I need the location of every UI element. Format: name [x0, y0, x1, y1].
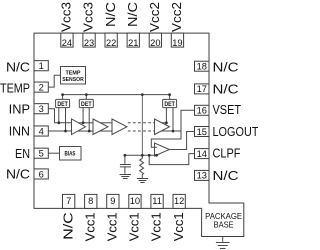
- node bus-DET1: [61, 93, 64, 96]
- detector DET4 box: [163, 99, 177, 107]
- detector summing bus: [62, 94, 170, 96]
- svg-text:PACKAGE: PACKAGE: [205, 212, 243, 221]
- DET4 tap left: [165, 108, 167, 123]
- svg-text:14: 14: [197, 149, 207, 159]
- INP wire from pin 3: [48, 109, 71, 123]
- svg-text:BIAS: BIAS: [65, 151, 76, 158]
- svg-text:DET: DET: [164, 101, 175, 108]
- node summing-clpf: [148, 154, 151, 157]
- interstage wire upper 2-3: [100, 122, 112, 124]
- svg-text:4: 4: [39, 126, 44, 136]
- ground under package base: [216, 243, 230, 249]
- amplifier A3: [112, 119, 127, 135]
- DET1 tap right: [65, 108, 67, 131]
- DET4 tap right: [172, 108, 174, 131]
- pin 12 box: [173, 194, 185, 208]
- bus stub DET1: [62, 95, 64, 100]
- svg-text:BASE: BASE: [214, 221, 234, 230]
- node bus-DET4: [168, 93, 171, 96]
- svg-text:21: 21: [128, 38, 138, 48]
- pin 16 box: [195, 105, 210, 115]
- CLPF wire: [149, 154, 194, 165]
- svg-text:18: 18: [197, 62, 207, 72]
- svg-text:LOGOUT: LOGOUT: [213, 125, 259, 139]
- svg-text:N/C: N/C: [61, 212, 75, 240]
- node summing-opamp: [155, 154, 158, 157]
- pin 13 box: [195, 170, 210, 180]
- dashed wire upper 3-4: [128, 122, 155, 124]
- svg-text:10: 10: [130, 196, 140, 206]
- interstage wire lower 1-2: [78, 130, 93, 132]
- node summing-drop: [141, 154, 144, 157]
- pin 19 box: [171, 33, 183, 47]
- pin 24 box: [34, 33, 209, 208]
- left pin labels: [0, 60, 30, 181]
- amplifier A4: [155, 119, 170, 135]
- svg-text:TEMP: TEMP: [0, 82, 30, 96]
- interstage wire upper 1-2: [78, 122, 93, 124]
- A4 output upper stub: [162, 122, 167, 124]
- svg-text:Vcc2: Vcc2: [170, 2, 184, 32]
- top pin labels: [60, 2, 186, 241]
- capacitor C1 plates: [120, 165, 131, 167]
- wire pin2 to temp sensor: [48, 75, 60, 87]
- amplifier A1: [72, 119, 86, 135]
- svg-text:INP: INP: [9, 102, 30, 116]
- pin 11 box: [151, 194, 163, 208]
- pin 15 box: [195, 127, 210, 137]
- resistor R1 zigzag: [140, 159, 144, 178]
- block text labels: [57, 70, 242, 229]
- IC body outline merged with package base box: [34, 33, 244, 236]
- svg-text:N/C: N/C: [126, 2, 140, 27]
- capacitor C1 lower lead: [124, 167, 126, 174]
- svg-text:DET: DET: [57, 101, 68, 108]
- svg-text:9: 9: [110, 196, 115, 206]
- pin 18 box: [195, 61, 210, 71]
- pin 4 box: [34, 126, 48, 136]
- svg-text:INN: INN: [9, 125, 30, 139]
- pin 20 box: [149, 33, 161, 47]
- svg-text:N/C: N/C: [213, 169, 239, 183]
- pin 7 box: [63, 194, 75, 208]
- right pin labels: [213, 60, 259, 183]
- svg-text:6: 6: [39, 169, 44, 179]
- amplifier A2: [93, 119, 108, 135]
- op-amp U1: [155, 143, 170, 156]
- svg-text:11: 11: [152, 196, 162, 206]
- svg-text:15: 15: [197, 127, 207, 137]
- node DET2 tap right: [88, 130, 91, 133]
- svg-text:12: 12: [174, 196, 184, 206]
- pin 6 box: [34, 169, 48, 179]
- pin 10 box: [129, 194, 141, 208]
- pin 23 box: [83, 33, 95, 47]
- pin 1 box: [34, 61, 48, 71]
- svg-text:EN: EN: [15, 147, 30, 161]
- DET2 tap left: [82, 108, 84, 123]
- INN wire from pin 4: [48, 130, 71, 132]
- DET1 tap left: [58, 108, 60, 123]
- capacitor C1 lead: [124, 155, 126, 164]
- svg-text:VSET: VSET: [213, 103, 242, 117]
- svg-text:3: 3: [39, 104, 44, 114]
- svg-text:Vcc3: Vcc3: [82, 2, 96, 32]
- detector DET1 box: [56, 99, 70, 107]
- svg-text:Vcc1: Vcc1: [128, 212, 142, 241]
- svg-text:13: 13: [197, 171, 207, 181]
- svg-text:23: 23: [84, 38, 94, 48]
- pin 9 box: [107, 194, 119, 208]
- svg-text:DET: DET: [81, 101, 92, 108]
- svg-text:N/C: N/C: [213, 60, 239, 74]
- pin numbers top: [39, 38, 207, 206]
- package base ground lead: [222, 237, 224, 242]
- svg-text:5: 5: [39, 149, 44, 159]
- svg-text:19: 19: [172, 38, 182, 48]
- ground under R1: [137, 179, 148, 183]
- pin 3 box: [34, 104, 48, 114]
- svg-text:Vcc1: Vcc1: [172, 212, 186, 241]
- svg-text:8: 8: [88, 196, 93, 206]
- bus drop to summing node: [141, 95, 143, 156]
- svg-text:7: 7: [66, 196, 71, 206]
- ground under C1: [120, 175, 132, 179]
- node DET2 tap left: [82, 121, 85, 124]
- node DET4 tap left: [165, 121, 168, 124]
- pin 22 box: [105, 33, 117, 47]
- interstage wire lower 2-3: [100, 130, 113, 132]
- bias box: [60, 147, 82, 161]
- node bus-DET2: [85, 93, 88, 96]
- svg-text:N/C: N/C: [6, 168, 30, 182]
- pin 17 box: [195, 84, 210, 94]
- LOGOUT wire: [169, 132, 194, 150]
- bus stub DET4: [169, 95, 171, 100]
- node bus-drop: [141, 93, 144, 96]
- svg-text:Vcc1: Vcc1: [83, 212, 97, 241]
- svg-text:24: 24: [62, 38, 72, 48]
- svg-text:16: 16: [197, 106, 207, 116]
- svg-text:Vcc3: Vcc3: [60, 2, 74, 32]
- resistor R1 lead: [141, 155, 143, 158]
- svg-text:Vcc2: Vcc2: [148, 2, 162, 32]
- bus stub DET2: [85, 95, 87, 100]
- svg-text:2: 2: [39, 82, 44, 92]
- VSET feedback wire: [151, 110, 194, 147]
- pin 5 box: [34, 148, 48, 158]
- node DET4 tap right: [172, 130, 175, 133]
- detector DET2 box: [79, 99, 93, 107]
- node summing-cap: [124, 154, 127, 157]
- DET2 tap right: [88, 108, 90, 131]
- pin 2 box: [34, 82, 48, 92]
- svg-text:CLPF: CLPF: [213, 146, 241, 160]
- pin 8 box: [85, 194, 97, 208]
- svg-text:N/C: N/C: [104, 2, 118, 27]
- svg-text:17: 17: [197, 84, 207, 94]
- svg-text:N/C: N/C: [6, 60, 30, 74]
- junction dots: [57, 93, 174, 157]
- svg-text:Vcc1: Vcc1: [106, 212, 120, 241]
- pin 21 box: [127, 33, 139, 47]
- svg-text:N/C: N/C: [213, 83, 239, 97]
- A4 output lower wire: [161, 130, 181, 132]
- svg-text:SENSOR: SENSOR: [62, 77, 84, 83]
- dashed wire lower 3-4: [128, 130, 155, 132]
- svg-text:Vcc1: Vcc1: [150, 212, 164, 241]
- pin 14 box: [195, 149, 210, 159]
- svg-text:22: 22: [106, 38, 116, 48]
- svg-text:1: 1: [39, 61, 44, 71]
- node DET1 tap left: [57, 121, 60, 124]
- svg-text:TEMP: TEMP: [66, 70, 81, 76]
- temp sensor box: [61, 67, 86, 85]
- wire pin5 to bias: [48, 152, 59, 154]
- node DET1 tap right: [64, 130, 67, 133]
- svg-text:20: 20: [150, 38, 160, 48]
- summing node line: [125, 154, 157, 156]
